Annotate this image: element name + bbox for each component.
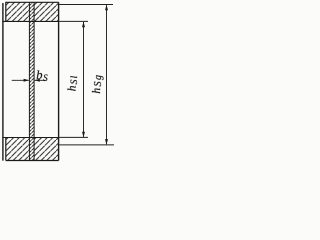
extension line D (bottom, for h_Sg) [59, 144, 114, 146]
top flange outline [6, 2, 59, 21]
bottom flange outline [6, 138, 59, 161]
top flange hatch left part [6, 2, 30, 21]
dimension line h_Sl [83, 22, 85, 137]
arrow h_Sg up [105, 5, 108, 11]
extension line C (bottom flange top, for h_Sl) [59, 136, 88, 138]
arrow h_Sg down [105, 139, 108, 145]
background [0, 0, 115, 165]
web left line [28, 2, 30, 160]
bottom flange hatch right part [34, 138, 59, 161]
extension line A (top, for h_Sg) [59, 4, 113, 6]
dimension line h_Sg [106, 5, 108, 144]
arrow h_Sl down [82, 132, 85, 138]
bottom flange hatch left part [6, 138, 30, 161]
left side plate line [2, 3, 4, 161]
web hatch [29, 2, 34, 160]
svg-text:hSg: hSg [91, 74, 104, 94]
arrow b_S right-pointing [24, 79, 30, 82]
web right line [33, 2, 35, 160]
right side plate line [58, 2, 60, 160]
top flange hatch right part [34, 2, 59, 21]
top flange bottom edge [2, 20, 58, 22]
arrow b_S left-pointing [34, 79, 40, 82]
arrow h_Sl up [82, 22, 85, 28]
dimension b_S right line [35, 79, 46, 81]
extension line B (top flange underside, for h_Sl) [59, 20, 88, 22]
dimension b_S left line [12, 79, 29, 81]
bottom flange top edge [2, 137, 58, 139]
